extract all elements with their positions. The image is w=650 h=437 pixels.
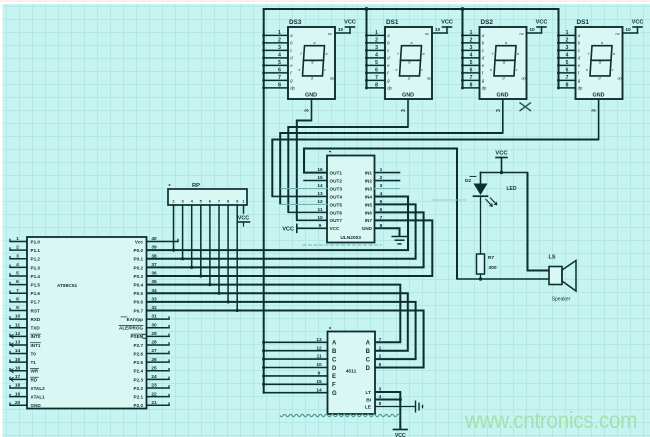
svg-text:G: G [332,391,337,397]
svg-text:VCC: VCC [330,226,341,231]
svg-text:P1.4: P1.4 [31,274,41,279]
LED D2 [465,177,517,207]
wire ULN pin10 stub [297,219,327,221]
wire 4511 output b to segment bus [264,350,328,352]
wire RP lead 8 to P0.6 [227,205,229,302]
svg-text:5: 5 [375,60,378,66]
ground symbol below ULN [392,237,408,244]
svg-text:3: 3 [496,109,502,112]
svg-text:VCC: VCC [282,226,294,232]
7-segment display DS2 (digit 3) [461,19,547,133]
wire RP pin1 to VCC [243,205,245,213]
junction segment bus c [262,358,265,361]
svg-text:C: C [366,357,371,363]
svg-text:b: b [423,52,425,56]
wire 4511 output d to segment bus [264,367,328,369]
svg-text:P2.6: P2.6 [134,351,144,356]
wire ULN pin13 stub [272,195,327,197]
svg-text:P1.6: P1.6 [31,291,41,296]
wire DS3 left bus vertical [462,9,464,88]
svg-text:e: e [586,68,588,72]
junction VCC net [500,171,503,174]
svg-text:C: C [332,357,337,363]
junction RP4/P0.2 [190,266,193,269]
svg-text:P2.3: P2.3 [134,377,144,382]
svg-text:1: 1 [375,30,378,36]
svg-text:2: 2 [470,38,473,44]
svg-text:7: 7 [278,75,281,81]
svg-text:1: 1 [566,30,569,36]
junction RP9/P0.7 [236,309,239,312]
svg-text:VCC: VCC [344,20,356,26]
svg-text:8: 8 [566,83,569,89]
svg-text:VCC: VCC [395,433,406,437]
svg-text:4: 4 [278,53,281,59]
svg-text:DS2: DS2 [481,19,494,26]
svg-text:IN5: IN5 [365,202,373,207]
junction segment bus f [262,383,265,386]
wire 4511 output a to segment bus [264,341,328,343]
svg-text:8: 8 [375,83,378,89]
svg-text:P1.1: P1.1 [31,248,41,253]
junction RP7/P0.5 [217,292,220,295]
svg-text:2: 2 [375,38,378,44]
svg-text:37: 37 [151,262,157,268]
svg-text:10: 10 [625,27,631,33]
wire MCU P0.0 to ULN IN4 [147,196,409,250]
wire MCU P0.5 to 4511 input B [147,293,408,350]
svg-text:XTAL2: XTAL2 [31,386,46,391]
svg-text:BI: BI [366,398,371,404]
svg-text:RP: RP [192,183,200,189]
wire ULN GND pin8 to ground [375,228,400,236]
wire RP lead 7 to P0.5 [218,205,220,293]
svg-text:dp: dp [522,77,526,81]
svg-text:4: 4 [375,53,378,59]
svg-text:10: 10 [435,27,441,33]
svg-text:VCC: VCC [632,20,644,26]
svg-text:nc: nc [615,32,619,36]
wire ULN pin11 stub [288,211,327,213]
svg-text:P2.0: P2.0 [134,403,144,408]
wire ULN OUT1 (pin16) to speaker net [304,149,457,280]
wire MCU P0.4 to 4511 input A [147,285,401,343]
svg-text:a: a [505,41,507,45]
svg-text:OUT6: OUT6 [330,210,343,215]
svg-text:dp: dp [482,86,487,91]
svg-text:VCC: VCC [238,216,249,222]
svg-text:www.cntronics.com: www.cntronics.com [464,407,637,433]
svg-text:T1: T1 [31,360,37,365]
svg-text:39: 39 [151,245,157,251]
wire 4511 output g to segment bus [264,392,328,394]
svg-text:LE: LE [365,405,372,411]
svg-text:P0.2: P0.2 [134,265,144,270]
svg-text:IN4: IN4 [365,194,373,199]
junction on rail at DS bus 2 [365,7,369,11]
svg-text:WR: WR [31,369,39,374]
svg-text:6: 6 [379,362,382,368]
junction R7/speaker net [479,277,482,280]
svg-text:e: e [299,68,301,72]
svg-text:7: 7 [379,337,382,343]
svg-text:c: c [516,68,518,72]
wire VCC horizontal [481,172,528,174]
svg-text:7: 7 [566,75,569,81]
svg-text:Speaker: Speaker [552,297,571,303]
svg-text:P0.7: P0.7 [134,308,144,313]
svg-text:DS1: DS1 [386,19,399,26]
svg-text:1: 1 [379,345,382,351]
wire RP lead 5 to P0.3 [200,205,202,276]
svg-text:TXD: TXD [31,326,41,331]
svg-text:nc: nc [328,32,332,36]
svg-text:3: 3 [401,109,407,112]
VCC bar at RP [238,221,250,223]
svg-text:2: 2 [566,38,569,44]
wire 4511 output e to segment bus [264,375,328,377]
svg-text:OUT1: OUT1 [330,171,343,176]
svg-text:IN2: IN2 [365,178,373,183]
svg-text:P0.1: P0.1 [134,257,144,262]
wire 4511 LE to ground [375,406,416,408]
junction segment bus e [262,374,265,377]
svg-text:5: 5 [470,60,473,66]
svg-text:6: 6 [566,68,569,74]
svg-text:AT89C51: AT89C51 [57,283,78,289]
svg-text:VCC: VCC [495,151,508,157]
microcontroller U1 AT89C51 [15,236,157,408]
svg-text:A: A [332,341,337,347]
svg-text:g: g [409,60,411,64]
svg-text:3: 3 [566,45,569,51]
svg-text:5: 5 [278,60,281,66]
wire MCU P0.2 to ULN IN6 [147,212,424,267]
svg-text:E: E [332,374,336,380]
svg-text:4511: 4511 [346,369,357,375]
wire RP lead 4 to P0.2 [191,205,193,267]
svg-text:OUT7: OUT7 [330,218,343,223]
svg-text:INT1: INT1 [31,343,41,348]
svg-text:B: B [332,349,337,355]
wire speaker bottom horizontal [457,278,549,280]
svg-text:38: 38 [151,253,157,259]
wire display 2 common cathode to ULN2003 output [288,127,408,212]
svg-text:10: 10 [338,27,344,33]
svg-text:3: 3 [592,109,598,112]
svg-text:P2.1: P2.1 [134,395,144,400]
wire ULN pin9 VCC stub [297,227,327,229]
wire DS4 left bus vertical [558,9,560,88]
svg-text:P2.4: P2.4 [134,369,144,374]
wire RP lead 9 to P0.7 [236,205,238,310]
svg-text:T0: T0 [31,351,37,356]
svg-text:IN1: IN1 [365,171,373,176]
svg-text:GND: GND [497,93,509,99]
svg-text:a: a [314,41,316,45]
svg-text:GND: GND [31,403,42,408]
svg-text:ULN2003: ULN2003 [340,235,361,241]
svg-text:IN3: IN3 [365,186,373,191]
junction RP2/P0.0 [172,249,175,252]
svg-text:P0.0: P0.0 [134,248,144,253]
svg-text:INT0: INT0 [31,334,41,339]
stub ULN IN1 [375,172,400,174]
svg-text:GND: GND [593,93,605,99]
svg-text:10: 10 [529,27,535,33]
svg-text:dp: dp [330,77,334,81]
svg-text:6: 6 [470,68,473,74]
wire MCU P0.6 to 4511 input C [147,302,416,359]
svg-text:P2.2: P2.2 [134,386,144,391]
svg-text:3: 3 [470,45,473,51]
svg-text:P0.6: P0.6 [134,300,144,305]
speaker LS [549,267,562,285]
svg-text:IN6: IN6 [365,210,373,215]
svg-text:36: 36 [151,271,157,277]
svg-text:5: 5 [566,60,569,66]
svg-text:D2: D2 [465,178,472,184]
stub ULN pin15 [304,180,327,182]
7-segment display DS3 (digit 1) [262,19,356,121]
svg-text:c: c [612,68,614,72]
junction RP3/P0.1 [181,257,184,260]
svg-text:g: g [503,60,505,64]
svg-text:3: 3 [305,109,311,112]
svg-text:a: a [601,41,603,45]
svg-text:7: 7 [375,75,378,81]
driver IC U2 ULN2003 [317,151,382,243]
junction segment bus a [262,341,265,344]
svg-text:b: b [517,52,519,56]
svg-text:DS1: DS1 [577,19,590,26]
wire VCC to speaker top [528,173,550,271]
svg-text:P0.4: P0.4 [134,283,144,288]
scan artifact wavy line [280,414,400,417]
wire 4511 LT/BI to VCC [375,392,400,430]
svg-text:DS3: DS3 [289,19,302,26]
7-segment display DS1 (digit 4) [557,19,643,140]
wire RP lead 2 to P0.0 [173,205,175,250]
svg-text:b: b [613,52,615,56]
junction RP8/P0.6 [227,300,230,303]
svg-text:P2.5: P2.5 [134,360,144,365]
svg-text:g: g [599,60,601,64]
svg-text:P0.5: P0.5 [134,291,144,296]
svg-text:OUT2: OUT2 [330,178,343,183]
svg-text:GND: GND [305,93,317,99]
wire display 4 common cathode to ULN2003 output [272,140,598,197]
stub ULN IN3 (faint) [375,188,400,190]
junction RP5/P0.3 [199,274,202,277]
svg-text:RST: RST [31,308,40,313]
svg-text:8: 8 [470,83,473,89]
svg-text:GND: GND [402,93,414,99]
junction segment bus b [262,349,265,352]
wire 4511 output f to segment bus [264,383,328,385]
stub ULN IN2 [375,180,400,182]
svg-text:LED: LED [507,186,517,192]
svg-text:P1.0: P1.0 [31,239,41,244]
scan artifact dashed line 2 [432,199,468,201]
VCC bar bottom [394,429,408,431]
svg-text:D: D [366,366,371,372]
svg-text:6: 6 [375,68,378,74]
svg-text:3: 3 [278,45,281,51]
svg-text:EA/Vpp: EA/Vpp [127,317,144,322]
svg-text:300: 300 [488,265,496,271]
svg-text:XTAL1: XTAL1 [31,395,46,400]
svg-text:OUT5: OUT5 [330,202,343,207]
svg-text:e: e [490,68,492,72]
svg-text:P1.3: P1.3 [31,265,41,270]
resistor R7 [477,254,485,274]
svg-text:A: A [366,341,371,347]
wire segment-bus top rail [264,8,559,10]
svg-text:4: 4 [470,53,473,59]
svg-text:LT: LT [365,390,371,396]
svg-text:a: a [411,41,413,45]
decoder IC U3 4511 [316,327,381,414]
wire R7 to speaker net [480,274,482,279]
svg-text:8: 8 [278,83,281,89]
svg-text:nc: nc [425,32,429,36]
svg-text:6: 6 [278,68,281,74]
wire ULN pin12 stub (faint) [280,203,327,205]
svg-text:Vcc: Vcc [135,239,144,244]
annotation X mark [520,103,532,112]
wire LED cathode to R7 [480,196,482,254]
svg-text:ALE/PROG: ALE/PROG [119,326,143,331]
7-segment display DS1 (digit 2) [365,19,453,127]
svg-text:P0.3: P0.3 [134,274,144,279]
junction LT/BI [399,398,402,401]
svg-text:c: c [421,68,423,72]
svg-text:RXD: RXD [31,317,41,322]
wire RP lead 3 to P0.1 [182,205,184,259]
wire segment bus vertical (main, rail to 4511) [263,9,265,393]
wire MCU P0.7 to 4511 input D [147,310,424,367]
svg-text:OUT4: OUT4 [330,194,343,199]
resistor pack RP [168,183,247,205]
junction segment bus d [262,366,265,369]
svg-text:dp: dp [427,77,431,81]
svg-text:1: 1 [278,30,281,36]
svg-text:LS: LS [549,255,556,261]
junction RP6/P0.4 [208,283,211,286]
svg-text:RD: RD [31,377,38,382]
svg-text:dp: dp [387,86,392,91]
MCU left pin stubs (pins 1-20) [10,239,27,405]
svg-text:2: 2 [379,354,382,360]
svg-text:VCC: VCC [536,20,548,26]
svg-text:VCC: VCC [441,20,453,26]
svg-text:1: 1 [470,30,473,36]
MCU right pin stubs (40,31,30,29,28-21) [147,239,179,405]
svg-text:b: b [326,52,328,56]
svg-text:dp: dp [578,86,583,91]
svg-text:IN7: IN7 [365,218,373,223]
wire MCU P0.1 to ULN IN5 [147,204,416,258]
wire RP lead 6 to P0.4 [209,205,211,285]
svg-text:F: F [332,383,336,389]
wire display 1 common cathode to ULN2003 output [297,121,312,221]
stub ULN pin14 (faint) [281,188,327,190]
svg-text:2: 2 [278,38,281,44]
svg-text:nc: nc [519,32,523,36]
svg-text:3: 3 [375,45,378,51]
svg-text:P1.5: P1.5 [31,283,41,288]
svg-text:e: e [396,68,398,72]
svg-text:dp: dp [618,77,622,81]
wire 4511 output c to segment bus [264,358,328,360]
svg-text:D: D [332,366,337,372]
svg-text:B: B [366,349,371,355]
wire VCC to LED anode [480,173,482,184]
VCC tick ULN pin9 [296,224,298,232]
svg-text:c: c [324,68,326,72]
svg-text:R7: R7 [488,255,495,261]
wire DS2 left bus vertical [366,9,368,88]
junction on rail at DS bus 3 [461,7,465,11]
ground symbol at 4511 LE (rotated) [416,401,423,413]
svg-text:P1.2: P1.2 [31,257,41,262]
wire display 3 common cathode to ULN2003 output [280,133,503,204]
svg-text:g: g [312,60,314,64]
svg-text:P2.7: P2.7 [134,343,144,348]
svg-text:P1.7: P1.7 [31,300,41,305]
svg-text:OUT3: OUT3 [330,186,343,191]
wire MCU P0.3 to ULN IN7 [147,220,433,276]
svg-text:GND: GND [362,226,373,231]
svg-text:dp: dp [290,86,295,91]
svg-text:7: 7 [470,75,473,81]
scan artifact dashed line 1 [303,244,381,246]
svg-text:4: 4 [566,53,569,59]
